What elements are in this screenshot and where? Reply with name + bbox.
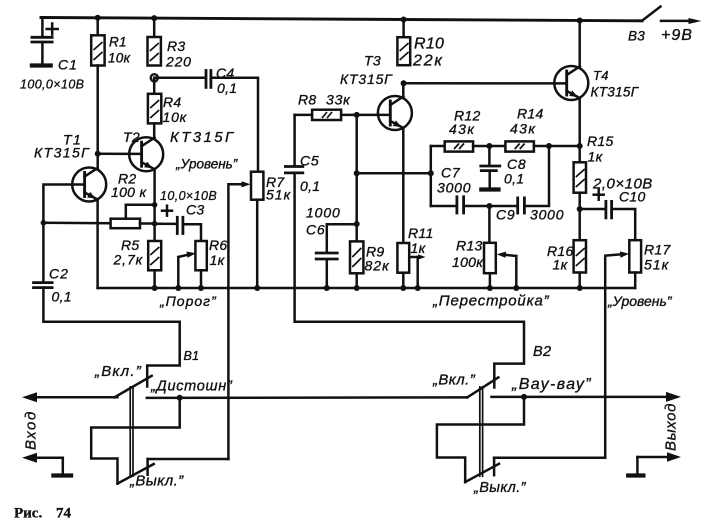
transistor T2 xyxy=(123,129,236,171)
svg-text:Рис.: Рис. xyxy=(14,506,42,522)
wire C5 column from R8 xyxy=(293,115,296,165)
svg-text:3000: 3000 xyxy=(530,207,564,223)
svg-text:С1: С1 xyxy=(58,57,78,73)
node R11-bottom xyxy=(400,285,406,291)
resistor R5 xyxy=(113,237,162,288)
potentiometer R6 xyxy=(195,237,227,288)
node R5-bottom xyxy=(152,285,158,291)
capacitor C3 xyxy=(155,189,217,235)
svg-text:R3: R3 xyxy=(167,38,186,54)
node R10 / T3 collector / T4 base xyxy=(401,80,407,86)
wire C6 to R9 column xyxy=(327,224,357,252)
resistor R2 xyxy=(111,171,155,229)
potentiometer R11 xyxy=(397,225,433,288)
svg-text:„Вау-вау”: „Вау-вау” xyxy=(511,376,592,393)
switch B3 xyxy=(628,7,702,44)
node rail-R10 xyxy=(401,17,407,23)
capacitor C5 xyxy=(284,153,320,195)
node rail-R3 xyxy=(151,15,157,21)
wire Дистошн output line xyxy=(147,396,467,399)
switch B2 lower lever xyxy=(465,464,499,482)
svg-text:КТ315Г: КТ315Г xyxy=(340,71,393,87)
svg-text:Т4: Т4 xyxy=(593,68,609,83)
svg-text:Вход: Вход xyxy=(23,410,40,450)
svg-text:33к: 33к xyxy=(326,92,351,108)
wire to R12/C7 network xyxy=(357,172,431,175)
wire to T4 base xyxy=(404,82,567,85)
svg-text:0,1: 0,1 xyxy=(300,178,320,194)
wire T4 collector to rail xyxy=(578,21,581,67)
svg-text:„Порог”: „Порог” xyxy=(159,293,217,309)
node Вау-вау xyxy=(521,394,527,400)
wire T3 emitter down to R11 xyxy=(402,128,405,243)
svg-text:„Вкл.”: „Вкл.” xyxy=(432,372,476,389)
wire +9V top rail xyxy=(41,18,642,21)
output arrow xyxy=(666,392,681,402)
transistor T4 xyxy=(554,66,639,100)
svg-text:„Уровень”: „Уровень” xyxy=(175,157,238,172)
potentiometer R17 xyxy=(629,240,671,288)
node R11-wiper-bottom xyxy=(415,285,421,291)
potentiometer R13 xyxy=(452,206,496,288)
node R8 right / C7 net xyxy=(354,112,360,118)
wire T2 emitter down xyxy=(153,169,156,241)
svg-text:220: 220 xyxy=(165,54,192,70)
wire R14 right to R15 node xyxy=(534,145,580,148)
wire R2 right xyxy=(140,222,155,225)
svg-text:1к: 1к xyxy=(553,257,569,273)
ground C1 xyxy=(30,63,53,67)
node R14/C9 xyxy=(546,143,552,149)
svg-text:Т2: Т2 xyxy=(123,129,140,145)
svg-text:74: 74 xyxy=(56,506,72,522)
switch B1 lower lever xyxy=(118,464,154,484)
svg-text:С6: С6 xyxy=(306,222,326,238)
node rail-R1 xyxy=(95,15,101,21)
wire B1 lower feed steps xyxy=(91,398,180,484)
capacitor C6 xyxy=(306,205,341,289)
node C6 tap xyxy=(354,221,360,227)
svg-text:„Выкл.”: „Выкл.” xyxy=(473,480,527,496)
svg-text:100 к: 100 к xyxy=(111,184,147,200)
wire C3 to R6 xyxy=(183,224,201,241)
wire output line xyxy=(492,396,677,399)
svg-text:22к: 22к xyxy=(412,53,444,70)
node R3-R4-C4 xyxy=(151,74,158,81)
wiper R11 xyxy=(409,254,425,288)
svg-text:43к: 43к xyxy=(510,121,536,137)
wire B2 lower feed steps xyxy=(437,397,524,482)
svg-text:3000: 3000 xyxy=(437,180,471,196)
svg-text:С5: С5 xyxy=(300,153,320,169)
ground output xyxy=(626,452,681,475)
node T1 base / R2 xyxy=(41,220,47,226)
node R16-bottom xyxy=(577,285,583,291)
svg-text:В2: В2 xyxy=(533,344,551,360)
svg-text:R13: R13 xyxy=(456,238,483,254)
resistor R8 xyxy=(295,92,352,121)
svg-text:51к: 51к xyxy=(266,187,292,203)
resistor R10 xyxy=(397,20,444,70)
svg-text:1к: 1к xyxy=(588,149,604,165)
svg-text:КТ315Г: КТ315Г xyxy=(591,85,640,100)
wire R12-R14 xyxy=(473,145,505,148)
svg-text:100к: 100к xyxy=(452,254,484,270)
svg-text:Т3: Т3 xyxy=(364,53,381,69)
ground C8 xyxy=(479,187,500,191)
wiper R6 xyxy=(178,252,196,289)
wiper R17 (to B2 lower contact) xyxy=(605,251,629,457)
svg-text:„Выкл.”: „Выкл.” xyxy=(129,473,184,490)
switch B2 upper lever xyxy=(467,377,498,397)
capacitor C8 xyxy=(479,146,526,188)
svg-text:100,0×10В: 100,0×10В xyxy=(20,78,84,92)
svg-text:R8: R8 xyxy=(298,92,317,108)
svg-text:0,1: 0,1 xyxy=(217,80,237,96)
wire R8 to T3 base xyxy=(341,114,390,117)
svg-text:+9В: +9В xyxy=(661,27,693,44)
resistor R4 xyxy=(148,78,188,125)
wire T3 collector up xyxy=(402,83,405,96)
node T2 emitter / R2-C3 wire xyxy=(152,221,158,227)
ground input xyxy=(22,453,73,476)
resistor R9 xyxy=(350,241,390,288)
node R13-bottom xyxy=(487,285,493,291)
wire T1 base xyxy=(43,185,84,282)
capacitor C10 xyxy=(580,176,653,241)
svg-text:10к: 10к xyxy=(108,51,131,66)
svg-text:R11: R11 xyxy=(408,225,434,241)
svg-text:R10: R10 xyxy=(414,36,444,53)
svg-text:1000: 1000 xyxy=(306,205,341,221)
node T1 collector / T2 base xyxy=(95,151,101,157)
node R12/R14/C8 xyxy=(486,143,492,149)
wire R3/R4 node to C4 xyxy=(154,76,204,79)
transistor T1 xyxy=(34,132,106,202)
potentiometer R7 xyxy=(251,172,292,288)
capacitor C9 xyxy=(489,146,564,223)
svg-text:R17: R17 xyxy=(644,242,671,258)
capacitor C2 xyxy=(32,266,72,305)
node R13-wiper-bottom xyxy=(513,285,519,291)
node R9-bottom xyxy=(354,285,360,291)
svg-text:В3: В3 xyxy=(628,29,645,44)
capacitor C4 xyxy=(206,65,237,96)
svg-text:82к: 82к xyxy=(365,258,391,274)
resistor R3 xyxy=(148,18,192,69)
svg-text:R15: R15 xyxy=(587,133,614,149)
node C7 wire tap xyxy=(354,170,360,176)
wire R4 to T2 collector xyxy=(153,123,156,137)
wire C7 net vertical xyxy=(355,115,358,241)
svg-text:С7: С7 xyxy=(441,165,461,181)
transistor T3 xyxy=(340,53,412,131)
svg-text:0,1: 0,1 xyxy=(504,171,524,187)
node rail-T4 collector xyxy=(577,18,583,24)
node R6-bottom xyxy=(198,285,204,291)
svg-text:43к: 43к xyxy=(449,121,475,137)
wire T2 base xyxy=(98,152,142,155)
wiper R7 (to B1 lower contact) xyxy=(228,181,250,459)
resistor R1 xyxy=(91,18,130,66)
svg-text:КТ315Г: КТ315Г xyxy=(34,145,90,161)
svg-text:Выход: Выход xyxy=(663,403,680,451)
resistor R15 xyxy=(574,133,614,240)
resistor R12 xyxy=(431,108,481,152)
svg-text:1к: 1к xyxy=(210,252,226,268)
resistor R16 xyxy=(547,240,586,288)
svg-text:51к: 51к xyxy=(644,257,670,273)
wire C5 to B2 upper contact xyxy=(295,174,524,388)
wire T4 emitter down xyxy=(578,98,581,162)
wire R1 to T1 collector node xyxy=(96,66,99,168)
switch B1 upper lever xyxy=(115,376,152,398)
svg-text:0,1: 0,1 xyxy=(52,289,72,305)
input arrow xyxy=(22,392,37,402)
svg-text:„Уровень”: „Уровень” xyxy=(607,293,673,309)
resistor R14 xyxy=(505,106,543,152)
svg-text:С3: С3 xyxy=(186,202,205,218)
capacitor C7 xyxy=(431,165,490,215)
svg-text:КТ315Г: КТ315Г xyxy=(170,129,236,146)
svg-text:„Дистошн”: „Дистошн” xyxy=(150,379,233,395)
node Дистошн xyxy=(177,395,183,401)
svg-text:С2: С2 xyxy=(49,266,69,282)
capacitor C1 xyxy=(20,18,84,92)
node C6-bottom xyxy=(324,285,330,291)
wire R12 network left vertical xyxy=(430,146,433,206)
node R7-bottom xyxy=(254,285,260,291)
wire common bottom rail xyxy=(98,287,636,290)
node network left xyxy=(428,170,434,176)
svg-text:10к: 10к xyxy=(163,109,188,125)
svg-text:1к: 1к xyxy=(411,240,427,256)
svg-text:„Вкл.”: „Вкл.” xyxy=(94,363,142,380)
wire B1 lower contact to R7 wiper xyxy=(148,458,229,461)
wire R2 left xyxy=(43,222,110,225)
switch B1 gang link xyxy=(130,386,133,477)
svg-text:В1: В1 xyxy=(184,349,200,363)
node R15/R16/C10 xyxy=(577,206,583,212)
svg-text:R6: R6 xyxy=(209,237,228,253)
node T2 emitter / R2 tap wire xyxy=(152,202,158,208)
node T4 emitter / R14 wire / R15 xyxy=(577,143,583,149)
wiper R13 xyxy=(497,252,517,288)
svg-text:R14: R14 xyxy=(517,106,544,122)
switch B2 gang link xyxy=(480,386,483,477)
node C7/C9/R13 xyxy=(486,203,492,209)
svg-text:С9: С9 xyxy=(496,207,516,223)
node R6-wiper-bottom xyxy=(175,285,181,291)
svg-text:R1: R1 xyxy=(109,35,127,50)
svg-text:„Перестройка”: „Перестройка” xyxy=(432,293,550,310)
svg-text:2,7к: 2,7к xyxy=(113,252,144,268)
wire T1 emitter down xyxy=(96,200,99,289)
wire C4 to R7 top xyxy=(211,78,258,172)
svg-text:R4: R4 xyxy=(163,94,182,110)
svg-text:С10: С10 xyxy=(619,189,646,205)
wire B2 lower contact to R17 wiper xyxy=(494,456,605,459)
wire C2 to B1 upper contact xyxy=(43,288,179,387)
wire input line xyxy=(27,396,117,399)
